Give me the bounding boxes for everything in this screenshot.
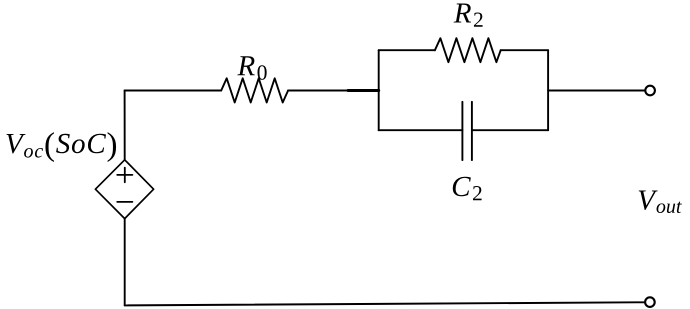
wire: parallel block right edge xyxy=(547,50,549,130)
wire: top horizontal from corner to R0 xyxy=(125,90,222,92)
wire: bottom rail to bottom terminal xyxy=(125,302,645,305)
terminal: top output node xyxy=(645,86,655,96)
label R2 xyxy=(454,4,483,27)
wire: output to top terminal xyxy=(548,90,644,92)
label Vout xyxy=(639,191,682,214)
wire: top edge left of R2 xyxy=(379,49,435,51)
wire: parallel block left edge xyxy=(378,50,380,130)
wire: top edge right of R2 xyxy=(501,49,548,51)
wire: thicker lead into parallel block xyxy=(348,89,379,92)
minus sign of source xyxy=(117,201,132,203)
resistor R0 xyxy=(221,78,288,102)
wire: left vertical from top-left corner down to source top xyxy=(124,91,126,160)
plus sign of source xyxy=(117,168,132,183)
label C2 xyxy=(453,177,482,201)
capacitor C2 xyxy=(462,102,472,160)
voltage source U1 (dependent source diamond) xyxy=(95,160,153,219)
label Voc(SoC) xyxy=(7,132,117,162)
label R0 xyxy=(237,56,266,80)
resistor R2 xyxy=(435,38,501,62)
wire: bottom edge right of C2 xyxy=(472,129,548,131)
wire: source bottom down to bottom rail xyxy=(124,219,126,306)
terminal: bottom output node xyxy=(645,297,655,307)
wire: bottom edge left of C2 xyxy=(379,129,463,131)
wire: R0 to parallel block xyxy=(288,90,379,92)
